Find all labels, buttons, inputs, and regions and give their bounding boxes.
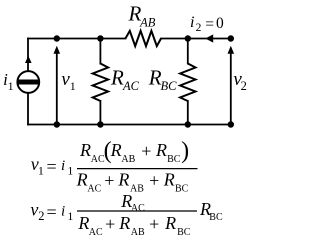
wire R_AC bottom lead (99, 101, 101, 125)
junction dot top R_AC (node A) (97, 35, 104, 42)
junction dot bottom v2 (228, 121, 235, 128)
svg-text:AC: AC (122, 79, 140, 93)
equation v2 fraction bar (77, 210, 197, 212)
svg-text:0: 0 (216, 15, 224, 32)
svg-text:=: = (47, 202, 57, 222)
svg-text:AC: AC (131, 203, 145, 214)
wire bottom rail node C (28, 124, 231, 126)
svg-text:AC: AC (89, 227, 103, 238)
svg-text:BC: BC (175, 183, 189, 194)
svg-text:R: R (110, 66, 124, 90)
svg-text:+: + (105, 214, 115, 234)
equation v1 fraction bar (77, 168, 198, 170)
junction dot top v1 (54, 35, 61, 42)
svg-text:R: R (163, 170, 175, 190)
junction dot top R_BC (node B) (185, 35, 192, 42)
svg-text:1: 1 (70, 79, 76, 93)
svg-text:i: i (190, 14, 194, 31)
wire top left segment node A side (28, 38, 125, 40)
wire R_AC top lead (99, 39, 101, 64)
junction dot bottom R_AC (node C) (97, 121, 104, 128)
svg-text:=: = (47, 156, 57, 176)
svg-text:v: v (30, 200, 38, 220)
resistor R_AB (125, 31, 161, 46)
wire top right segment node B side (161, 38, 231, 40)
svg-text:AB: AB (121, 154, 135, 165)
svg-text:AB: AB (131, 227, 145, 238)
svg-text:R: R (117, 170, 129, 190)
svg-text:=: = (205, 16, 214, 33)
svg-text:2: 2 (241, 79, 247, 93)
svg-text:R: R (155, 140, 167, 160)
wire R_BC top lead (187, 39, 189, 64)
svg-text:+: + (104, 170, 114, 190)
svg-text:AC: AC (87, 183, 101, 194)
wire left rail below source (27, 93, 29, 124)
v2 arrow head (228, 46, 235, 54)
svg-text:1: 1 (67, 163, 73, 177)
i2 arrow head pointing left (205, 34, 213, 42)
svg-text:2: 2 (196, 22, 202, 34)
junction dot top v2 (228, 35, 235, 42)
svg-text:+: + (149, 214, 159, 234)
current source i1 arrow head (25, 56, 32, 63)
junction dot bottom R_BC (185, 121, 192, 128)
wire R_BC bottom lead (187, 101, 189, 125)
svg-text:BC: BC (209, 212, 223, 223)
svg-text:+: + (149, 170, 159, 190)
resistor R_AC (93, 64, 108, 102)
svg-text:1: 1 (67, 209, 73, 223)
svg-text:1: 1 (38, 163, 44, 177)
svg-text:R: R (164, 213, 176, 233)
current source i1 circle (17, 71, 39, 93)
svg-text:BC: BC (161, 79, 178, 93)
svg-text:+: + (141, 141, 151, 161)
svg-text:i: i (61, 158, 65, 174)
svg-text:R: R (110, 140, 122, 160)
svg-text:R: R (118, 213, 130, 233)
svg-text:2: 2 (38, 209, 44, 223)
svg-text:): ) (181, 138, 189, 164)
current source i1 bar (18, 80, 39, 85)
svg-text:BC: BC (167, 154, 181, 165)
svg-text:BC: BC (177, 227, 191, 238)
svg-text:R: R (79, 140, 91, 160)
svg-text:1: 1 (8, 79, 14, 93)
wire v2 voltage arrow shaft (230, 50, 232, 125)
svg-text:R: R (76, 170, 88, 190)
resistor R_BC (180, 64, 195, 102)
wire left rail above source (27, 39, 29, 72)
junction dot bottom v1 (54, 121, 61, 128)
svg-text:i: i (61, 204, 65, 220)
svg-text:R: R (77, 213, 89, 233)
svg-text:AB: AB (139, 15, 156, 29)
v1 arrow head (54, 46, 61, 54)
wire v1 voltage arrow shaft (56, 50, 58, 125)
